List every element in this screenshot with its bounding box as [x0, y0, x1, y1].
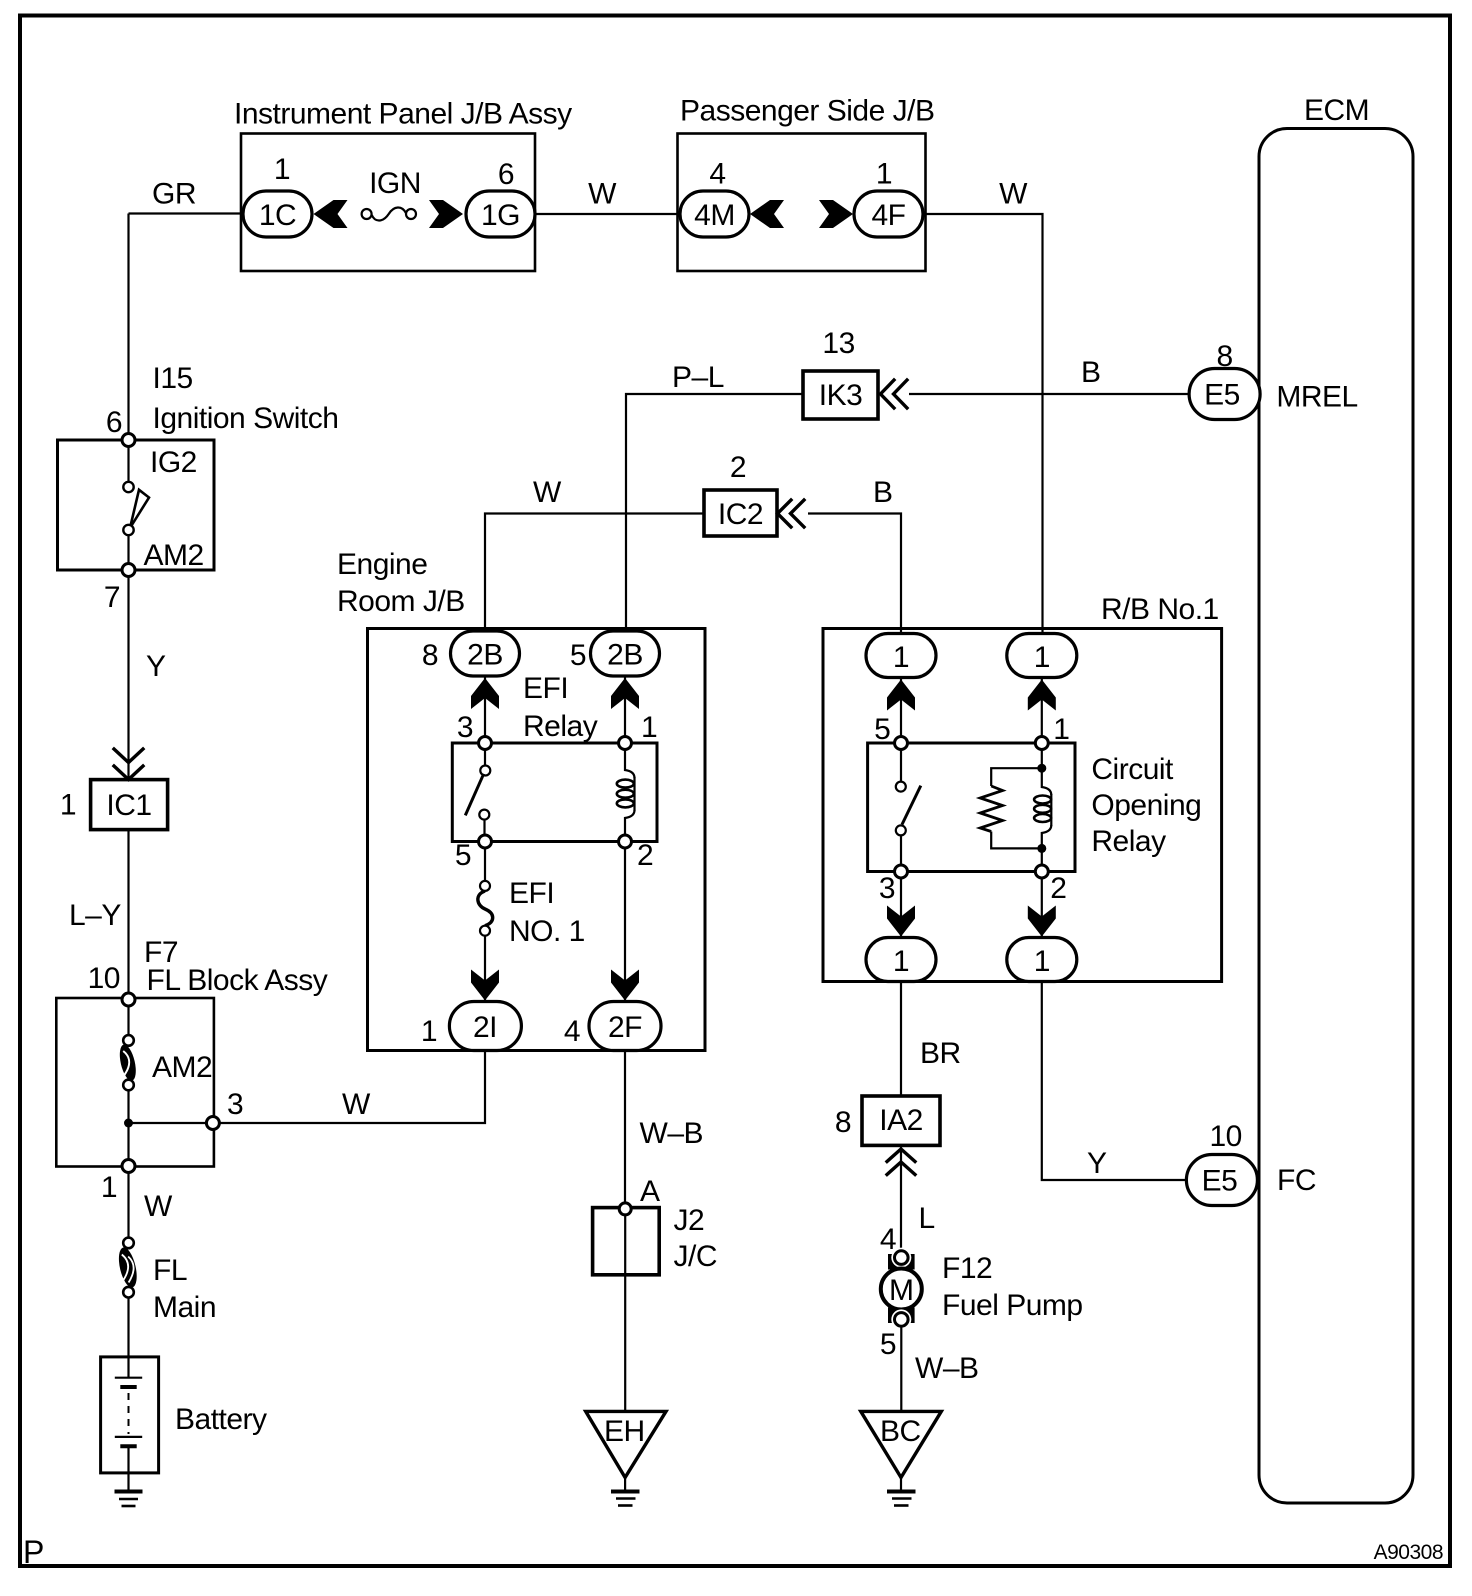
wire oval to relay pin 5 [900, 678, 902, 741]
wire contact to pin 3 [900, 835, 902, 865]
wire dot to pin 2 [1041, 848, 1043, 865]
svg-text:BC: BC [880, 1415, 921, 1448]
svg-text:3: 3 [457, 711, 473, 744]
relay switch lower contact [479, 810, 489, 820]
fuel pump F12 [888, 1254, 915, 1270]
svg-text:EH: EH [604, 1415, 645, 1448]
svg-text:4: 4 [880, 1223, 896, 1256]
svg-text:1: 1 [876, 158, 892, 191]
wire W from engine room J/B to IC2 [485, 514, 704, 634]
node relay pin 1 [619, 737, 632, 750]
wire battery to ground [127, 1448, 129, 1490]
connector oval 2F [589, 1002, 661, 1051]
svg-text:10: 10 [1210, 1120, 1242, 1153]
junction block J2 box [593, 1208, 660, 1275]
FL block assy box [56, 998, 214, 1167]
svg-text:Fuel Pump: Fuel Pump [942, 1289, 1083, 1322]
arrow down into 2I [471, 970, 499, 1001]
wire lower contact to pin 7 [127, 535, 129, 564]
wire fuse to 2I [484, 936, 486, 1001]
svg-text:1: 1 [1034, 641, 1050, 674]
svg-text:W: W [533, 476, 562, 509]
svg-text:R/B No.1: R/B No.1 [1101, 593, 1219, 626]
svg-text:3: 3 [879, 872, 895, 905]
svg-text:1: 1 [101, 1171, 117, 1204]
svg-text:4M: 4M [694, 199, 735, 232]
passenger side J/B box [678, 134, 926, 272]
node pin 10 [122, 993, 135, 1006]
svg-text:A90308: A90308 [1374, 1541, 1443, 1564]
svg-text:AM2: AM2 [152, 1051, 212, 1084]
svg-text:Relay: Relay [1091, 825, 1166, 858]
chevron arrows into IK3 [881, 380, 908, 408]
svg-text:Circuit: Circuit [1091, 753, 1174, 786]
relay switch blade [465, 774, 483, 816]
wire oval to relay pin 1 [1041, 678, 1043, 741]
node pin 7 [122, 564, 135, 577]
battery box [101, 1357, 159, 1473]
svg-text:W–B: W–B [640, 1117, 704, 1150]
svg-text:13: 13 [822, 327, 854, 360]
svg-text:Opening: Opening [1091, 789, 1201, 822]
arrow left toward 4M [750, 200, 784, 228]
svg-text:1: 1 [1034, 945, 1050, 978]
connector IK3 [803, 371, 878, 419]
connector oval 2I [449, 1002, 521, 1051]
svg-text:Room J/B: Room J/B [337, 585, 465, 618]
wire to switch contact [127, 446, 129, 482]
svg-text:NO. 1: NO. 1 [509, 915, 585, 948]
svg-text:Relay: Relay [523, 710, 598, 743]
battery cell plates [115, 1377, 142, 1379]
svg-text:L: L [919, 1202, 935, 1235]
svg-text:GR: GR [152, 178, 196, 211]
svg-text:M: M [889, 1274, 914, 1307]
connector IA2 [862, 1096, 940, 1145]
arrow down into oval bottom-left [887, 906, 915, 937]
wire Y from R/B to E5 FC [1042, 982, 1187, 1181]
svg-text:8: 8 [422, 639, 438, 672]
wire to fuse AM2 [127, 1006, 129, 1036]
arrow up into 2B right [611, 678, 639, 709]
node relay pin 3 [479, 737, 492, 750]
svg-text:1: 1 [1053, 713, 1069, 746]
svg-text:4F: 4F [871, 199, 905, 232]
svg-text:A: A [640, 1175, 660, 1208]
svg-text:3: 3 [227, 1088, 243, 1121]
svg-text:Instrument Panel J/B Assy: Instrument Panel J/B Assy [234, 98, 572, 131]
svg-text:1: 1 [641, 711, 657, 744]
svg-text:IC1: IC1 [106, 789, 151, 822]
resistor [991, 768, 1042, 786]
svg-text:2F: 2F [608, 1011, 642, 1044]
svg-text:2B: 2B [467, 639, 503, 672]
svg-text:P–L: P–L [672, 361, 724, 394]
wire BC to ground [900, 1478, 902, 1490]
arrow up into oval top-right [1028, 680, 1056, 711]
ground triangle BC [861, 1411, 942, 1477]
arrow down into 2F [611, 970, 639, 1001]
connector oval 4F [854, 191, 923, 237]
arrow right toward 1G [429, 200, 463, 228]
wire GR vertical down to ignition switch [127, 214, 129, 441]
node relay pin 5 [895, 737, 908, 750]
svg-text:EFI: EFI [509, 877, 554, 910]
svg-text:6: 6 [498, 158, 514, 191]
R/B No.1 box [823, 629, 1222, 982]
svg-text:1: 1 [893, 641, 909, 674]
svg-text:W–B: W–B [915, 1352, 979, 1385]
svg-text:5: 5 [874, 713, 890, 746]
svg-text:P: P [23, 1534, 44, 1570]
ground symbol BC [887, 1490, 916, 1494]
svg-text:FC: FC [1277, 1164, 1316, 1197]
svg-text:8: 8 [835, 1106, 851, 1139]
wire BR from R/B to IA2 [900, 982, 902, 1097]
node pin 3 [206, 1117, 219, 1130]
svg-text:J/C: J/C [674, 1240, 718, 1273]
arrow left toward 1C [314, 200, 348, 228]
connector oval E5 FC [1186, 1155, 1257, 1206]
wire IA2 to pump [900, 1145, 902, 1251]
node relay pin 2 [1035, 865, 1048, 878]
connector oval 1 top-right [1007, 634, 1077, 678]
connector oval 1 bottom-right [1007, 938, 1077, 982]
relay switch upper contact [480, 766, 490, 776]
wire P-L from IK3 to engine room J/B [626, 394, 803, 633]
svg-text:ECM: ECM [1304, 94, 1369, 127]
svg-text:L–Y: L–Y [69, 899, 121, 932]
svg-text:5: 5 [880, 1328, 896, 1361]
junction dot top [1037, 764, 1046, 773]
node relay pin 2 [619, 835, 632, 848]
wire W between J/B boxes [535, 213, 680, 215]
relay switch blade [902, 786, 921, 825]
connector oval 1 bottom-left [866, 938, 936, 982]
wire fuse to junction [127, 1091, 129, 1161]
wire B from IK3 to E5 MREL [909, 393, 1189, 395]
chevron arrows into IC1 [114, 749, 143, 780]
node A [619, 1203, 631, 1215]
wire down to FL main [127, 1173, 129, 1239]
fuse IGN [362, 209, 372, 219]
node relay pin 3 [895, 865, 908, 878]
wire pin 5 to fuse EFI NO.1 [484, 848, 486, 881]
svg-text:Ignition Switch: Ignition Switch [153, 402, 339, 435]
svg-text:2B: 2B [607, 639, 643, 672]
svg-text:1G: 1G [481, 199, 520, 232]
svg-text:4: 4 [564, 1015, 580, 1048]
svg-text:B: B [1081, 356, 1101, 389]
svg-text:2: 2 [1050, 872, 1066, 905]
svg-text:Passenger Side J/B: Passenger Side J/B [680, 95, 934, 128]
svg-text:Engine: Engine [337, 548, 427, 581]
wire W from 4F to ECM column [923, 214, 1043, 633]
arrow up into 2B left [471, 678, 499, 709]
svg-text:10: 10 [88, 962, 120, 995]
svg-text:B: B [873, 476, 893, 509]
svg-text:F12: F12 [942, 1252, 992, 1285]
node relay pin 1 [1035, 737, 1048, 750]
svg-text:IC2: IC2 [718, 498, 763, 531]
relay coil COR [1042, 768, 1052, 795]
arrow right toward 4F [819, 200, 853, 228]
wire W to engine room J/B [219, 1051, 485, 1123]
wire L-Y down to FL block [127, 830, 129, 996]
ignition switch box [58, 440, 215, 570]
switch blade [130, 490, 149, 528]
svg-text:AM2: AM2 [144, 539, 204, 572]
junction dot bottom [1037, 844, 1046, 853]
svg-text:I15: I15 [153, 362, 193, 395]
wire relay pin 2 to 2F [624, 848, 626, 1001]
connector oval 2B right [591, 631, 660, 676]
connector oval 1G [466, 191, 535, 237]
svg-text:1: 1 [421, 1015, 437, 1048]
svg-text:FL Block Assy: FL Block Assy [147, 964, 328, 997]
svg-text:W: W [342, 1088, 371, 1121]
svg-text:5: 5 [570, 639, 586, 672]
svg-text:EFI: EFI [523, 672, 568, 705]
relay switch upper contact [896, 782, 906, 792]
fuse EFI NO. 1 [478, 891, 493, 926]
svg-text:1: 1 [893, 945, 909, 978]
wire pin 2 to oval [1041, 878, 1043, 937]
svg-text:2: 2 [730, 451, 746, 484]
wire Y down to IC1 [127, 576, 129, 780]
wire B from IC2 corner to R/B No.1 [808, 514, 901, 634]
wire pump to BC [900, 1326, 902, 1411]
node pin 1 [122, 1160, 135, 1173]
wire through J2 to EH [624, 1215, 626, 1411]
svg-text:W: W [144, 1190, 173, 1223]
svg-text:Battery: Battery [175, 1403, 267, 1436]
connector oval 2B left [451, 631, 520, 676]
svg-text:2: 2 [637, 839, 653, 872]
connector IC1 [91, 780, 168, 830]
svg-text:4: 4 [709, 158, 725, 191]
connector oval 4M [680, 191, 749, 237]
wire pin 5 to contact [900, 750, 902, 782]
fusible link FL Main [116, 1246, 140, 1289]
relay coil EFI [625, 750, 635, 779]
svg-text:BR: BR [920, 1037, 961, 1070]
arrow up into oval top-left [887, 680, 915, 711]
wire pin3 to contact [484, 750, 486, 766]
svg-text:7: 7 [104, 581, 120, 614]
svg-text:IG2: IG2 [150, 446, 197, 479]
wire pin 1 to junction [1041, 750, 1043, 769]
svg-text:1: 1 [274, 153, 290, 186]
svg-text:E5: E5 [1202, 1165, 1238, 1198]
instrument panel J/B box [241, 134, 535, 272]
switch contact lower circle [123, 525, 133, 535]
connector oval 1 top-left [866, 634, 936, 678]
relay switch lower contact [896, 825, 906, 835]
wire 2B left to relay pin 3 [484, 676, 486, 740]
wire junction to pin 3 [129, 1122, 207, 1124]
svg-text:6: 6 [106, 406, 122, 439]
switch contact upper circle [123, 482, 133, 492]
fuse AM2 [117, 1043, 139, 1082]
svg-text:W: W [999, 178, 1028, 211]
engine room J/B box [368, 629, 706, 1051]
svg-text:2I: 2I [473, 1011, 497, 1044]
chevron arrows into IC2 [778, 500, 805, 527]
svg-text:Y: Y [146, 650, 166, 683]
chevron arrows into IA2 [887, 1149, 915, 1175]
svg-text:FL: FL [153, 1254, 187, 1287]
svg-text:IA2: IA2 [879, 1104, 923, 1137]
arrow down into oval bottom-right [1028, 906, 1056, 937]
connector IC2 [704, 490, 777, 536]
svg-text:IGN: IGN [369, 167, 421, 200]
wire 2F down to J2 [624, 1051, 626, 1203]
connector oval E5 MREL [1189, 369, 1260, 420]
connector oval 1C [243, 191, 312, 237]
circuit opening relay box [868, 743, 1075, 872]
ground symbol EH [611, 1490, 640, 1494]
svg-text:W: W [588, 178, 617, 211]
svg-text:Y: Y [1087, 1147, 1107, 1180]
wire pin 3 to oval [900, 878, 902, 937]
svg-text:1C: 1C [259, 199, 296, 232]
EFI relay box [452, 743, 657, 842]
junction dot [124, 1119, 133, 1128]
wire contact to pin 5 [483, 820, 485, 835]
svg-text:5: 5 [455, 839, 471, 872]
svg-text:MREL: MREL [1276, 381, 1357, 414]
wire 2B right to relay pin 1 [624, 676, 626, 740]
svg-text:1: 1 [60, 789, 76, 822]
node relay pin 5 [479, 835, 492, 848]
ground battery [115, 1490, 143, 1494]
svg-text:E5: E5 [1204, 379, 1240, 412]
svg-text:IK3: IK3 [819, 379, 863, 412]
svg-text:Main: Main [153, 1291, 216, 1324]
wire to battery [127, 1298, 129, 1377]
wire GR horizontal [129, 212, 244, 214]
svg-text:J2: J2 [674, 1204, 705, 1237]
node pin 6 [122, 434, 135, 447]
ground triangle EH [586, 1411, 666, 1477]
wire EH to ground [624, 1478, 626, 1490]
ECM block [1259, 129, 1413, 1504]
